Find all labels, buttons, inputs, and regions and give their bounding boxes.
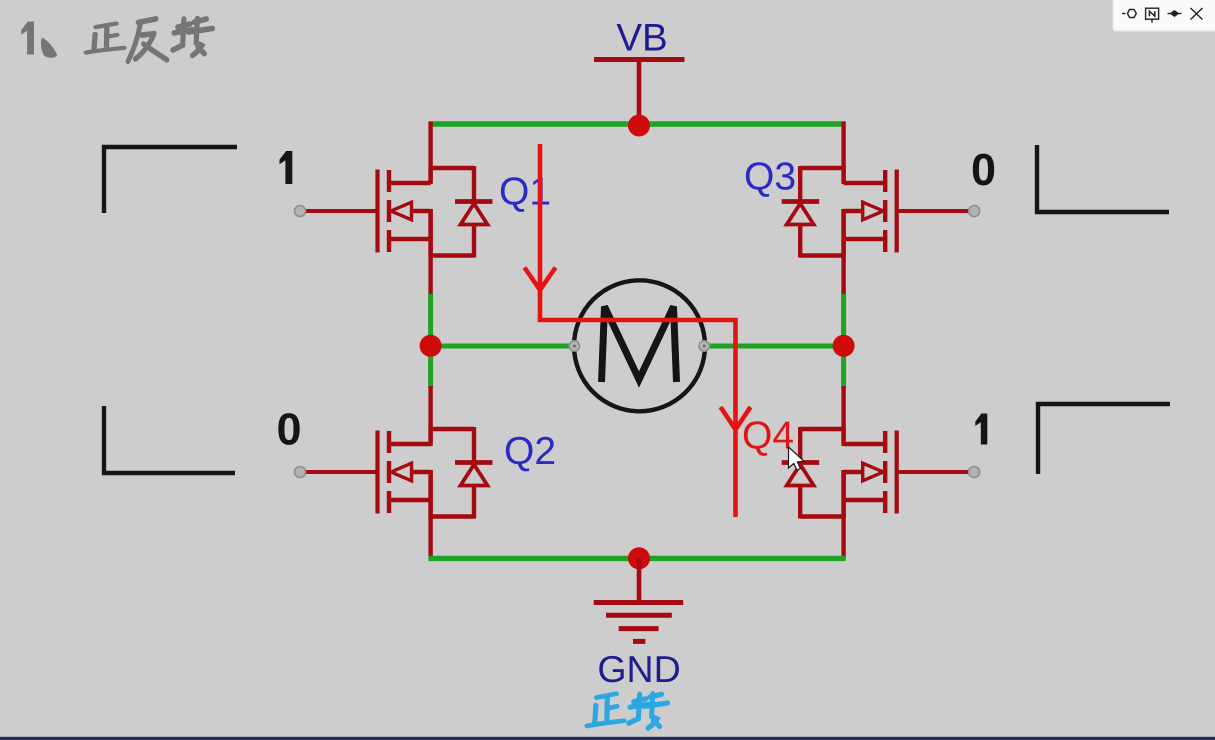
wire motor left (green) <box>431 344 572 349</box>
svg-text:0: 0 <box>276 403 301 454</box>
junction dot right (motor node B) <box>833 335 855 357</box>
body diode of Q4 <box>782 427 820 519</box>
svg-text:VB: VB <box>616 16 667 59</box>
wire motor right (green) <box>706 344 844 349</box>
gate pin of Q3 <box>969 206 980 217</box>
toolbar icon ellipse-net <box>1122 10 1136 18</box>
caption 正转 (cyan) <box>587 694 667 728</box>
gate pin of Q4 <box>969 467 980 478</box>
logic label 1 (bottom-right) <box>975 414 987 445</box>
power symbol VB <box>594 60 685 127</box>
logic label 1 (top-left) <box>280 151 293 184</box>
motor letter M <box>602 307 677 383</box>
body diode of Q1 <box>455 166 493 258</box>
junction dot top (VB node) <box>628 115 650 137</box>
wire left rail red (Q1 source to mid) <box>428 209 432 296</box>
svg-text:Q4: Q4 <box>742 415 794 458</box>
junction dot left (motor node A) <box>420 335 442 357</box>
svg-text:Q2: Q2 <box>504 430 556 473</box>
current path through Q1 (red) <box>540 144 736 517</box>
gate pin of Q2 <box>295 467 306 478</box>
svg-text:Q3: Q3 <box>744 156 796 199</box>
wire left rail red upper (Q1 drain) <box>428 122 432 185</box>
motor M circle <box>574 280 705 411</box>
svg-text:GND: GND <box>597 648 680 690</box>
ground symbol <box>594 558 684 641</box>
wire right rail red (mid to Q4 drain) <box>841 386 845 446</box>
transistor Q4 (N-MOSFET) <box>800 427 974 519</box>
wire left rail green segment <box>428 294 433 388</box>
toolbar icon close X <box>1191 8 1203 20</box>
wire bottom bus (green) <box>429 556 846 561</box>
bottom navy strip <box>0 737 1215 740</box>
input waveform bottom-left (low) <box>104 406 235 473</box>
svg-text:Q1: Q1 <box>499 171 551 214</box>
mouse cursor <box>789 447 805 470</box>
transistor Q1 (N-MOSFET) <box>300 166 474 258</box>
transistor Q2 (N-MOSFET) <box>300 427 474 519</box>
transistor Q3 (N-MOSFET) <box>800 166 974 258</box>
wire top bus (green) <box>429 121 846 126</box>
wire right rail red upper (Q3 drain) <box>841 122 845 185</box>
input waveform bottom-right (high) <box>1038 404 1170 474</box>
svg-text:0: 0 <box>971 144 996 195</box>
annotation toolbar <box>1113 0 1215 31</box>
current arrowhead 2 <box>721 407 751 430</box>
wire right rail red lower (Q4 source to bottom bus) <box>841 470 845 559</box>
body diode of Q3 <box>782 166 820 258</box>
junction dot bottom (GND node) <box>628 547 650 569</box>
toolbar icon diamond-wire <box>1168 11 1182 16</box>
wire right rail green segment <box>841 294 846 388</box>
title text "1、正反转" <box>21 19 212 62</box>
motor pin left <box>569 341 579 351</box>
current arrowhead 1 <box>525 268 556 291</box>
wire left rail red (mid to Q2 drain) <box>428 386 432 446</box>
motor pin right <box>699 341 709 351</box>
input waveform top-left (high) <box>104 147 237 213</box>
wire right rail red (Q3 source to mid) <box>841 209 845 296</box>
input waveform top-right (low) <box>1037 145 1169 212</box>
toolbar icon N-box <box>1146 8 1159 22</box>
body diode of Q2 <box>455 427 493 519</box>
gate pin of Q1 <box>295 206 306 217</box>
wire left rail red lower (Q2 source to bottom bus) <box>428 470 432 559</box>
